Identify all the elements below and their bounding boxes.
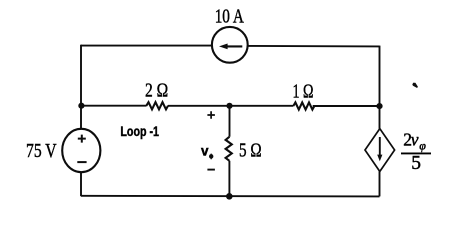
wire left vertical lower — [80, 172, 82, 196]
node junction dot middle bottom — [226, 193, 233, 200]
label 10 A — [215, 6, 245, 28]
current source arrow — [219, 44, 242, 50]
wire middle branch lower — [228, 161, 230, 197]
wire top rail left segment — [81, 45, 212, 47]
voltage source plus sign — [78, 135, 86, 143]
stray ink mark — [412, 83, 418, 88]
wire middle rail segment C — [230, 105, 294, 107]
wire top rail right segment — [248, 45, 380, 48]
label v_phi — [201, 144, 213, 160]
wire middle rail segment D — [313, 105, 380, 107]
voltage source 75 V — [62, 129, 100, 172]
svg-text:φ: φ — [419, 139, 426, 153]
current source 10 A — [212, 27, 248, 63]
node junction dot left — [78, 103, 84, 109]
plus sign at 5 Ohm — [207, 111, 215, 119]
label 2 Ohm — [145, 81, 168, 102]
dependent current source diamond — [365, 129, 395, 172]
label Loop -1 — [120, 124, 159, 139]
svg-text:5: 5 — [411, 153, 421, 174]
wire middle branch upper — [229, 106, 231, 137]
minus sign at 5 Ohm — [207, 169, 215, 171]
wire middle rail segment B — [168, 105, 230, 107]
resistor 2 Ohm — [146, 102, 168, 109]
wire bottom rail — [81, 195, 380, 198]
wire right vertical upper — [379, 46, 381, 129]
svg-text:v: v — [201, 144, 209, 159]
dependent source arrow — [377, 137, 382, 161]
label 5 Ohm — [239, 140, 262, 162]
label 2v_phi over 5 — [401, 129, 431, 174]
svg-text:v: v — [411, 129, 419, 149]
node junction dot middle top — [226, 103, 232, 109]
svg-text:75 V: 75 V — [26, 141, 57, 162]
svg-text:1 Ω: 1 Ω — [293, 82, 314, 103]
voltage source minus sign — [77, 161, 86, 163]
wire right vertical lower — [379, 171, 381, 196]
wire left vertical upper — [80, 45, 82, 130]
svg-text:Loop -1: Loop -1 — [120, 124, 159, 139]
resistor 5 Ohm — [226, 137, 232, 161]
svg-text:10 A: 10 A — [215, 6, 245, 28]
node junction dot right — [376, 103, 382, 109]
svg-text:5 Ω: 5 Ω — [239, 140, 262, 162]
resistor 1 Ohm — [293, 102, 314, 109]
label 75 V — [26, 141, 57, 162]
label 1 Ohm — [293, 82, 314, 103]
svg-text:2 Ω: 2 Ω — [145, 81, 168, 102]
wire middle rail segment A — [81, 105, 147, 107]
